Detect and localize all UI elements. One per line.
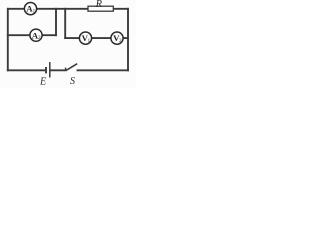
resistor R xyxy=(88,0,113,11)
svg-text:R: R xyxy=(95,0,103,10)
voltmeter V2 xyxy=(111,32,123,44)
wire right vertical xyxy=(127,9,129,71)
wire bottom middle segment xyxy=(50,69,65,71)
wire left vertical xyxy=(7,9,9,71)
wire bottom left segment xyxy=(8,69,46,71)
svg-text:S: S xyxy=(70,76,75,87)
wire V branch horizontal xyxy=(65,37,128,39)
ammeter A2 xyxy=(30,29,42,41)
wire bottom right segment xyxy=(78,69,129,71)
voltmeter V1 xyxy=(79,32,91,44)
wire V branch vertical drop xyxy=(64,9,66,38)
ammeter A1 xyxy=(24,3,36,15)
wire A2 branch horizontal xyxy=(8,34,56,36)
svg-text:E: E xyxy=(39,77,46,88)
wire A2 branch vertical riser xyxy=(55,9,57,35)
battery E xyxy=(39,62,50,88)
switch S xyxy=(66,64,78,87)
wire top horizontal xyxy=(8,8,128,10)
